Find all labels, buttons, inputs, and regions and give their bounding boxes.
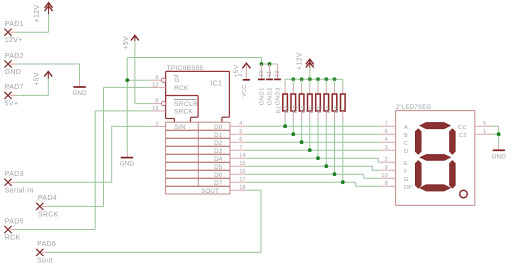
svg-text:Serial In: Serial In bbox=[5, 187, 34, 194]
svg-text:10: 10 bbox=[381, 173, 387, 179]
svg-text:C: C bbox=[404, 141, 408, 147]
svg-text:GND: GND bbox=[5, 69, 22, 76]
svg-text:PAD5: PAD5 bbox=[5, 218, 24, 225]
svg-text:E: E bbox=[404, 161, 408, 167]
svg-text:VCC: VCC bbox=[242, 85, 248, 97]
svg-text:13: 13 bbox=[152, 106, 158, 112]
svg-text:C2: C2 bbox=[459, 133, 467, 139]
svg-text:F: F bbox=[404, 169, 408, 175]
svg-text:DP: DP bbox=[404, 185, 412, 191]
svg-text:CC: CC bbox=[458, 125, 467, 131]
svg-text:12V+: 12V+ bbox=[5, 37, 23, 44]
svg-text:PAD1: PAD1 bbox=[5, 21, 24, 28]
svg-text:D3: D3 bbox=[214, 148, 223, 155]
svg-text:GND: GND bbox=[72, 90, 87, 97]
svg-text:B: B bbox=[404, 133, 408, 139]
svg-text:+5V: +5V bbox=[34, 72, 41, 86]
svg-text:GND: GND bbox=[492, 153, 507, 160]
svg-text:GND3: GND3 bbox=[275, 87, 281, 105]
svg-text:D: D bbox=[404, 149, 408, 155]
svg-text:2"LED7SEG: 2"LED7SEG bbox=[396, 104, 432, 111]
svg-text:D7: D7 bbox=[214, 180, 223, 187]
svg-text:D0: D0 bbox=[214, 124, 223, 131]
svg-text:9: 9 bbox=[385, 165, 388, 171]
svg-text:D6: D6 bbox=[214, 172, 223, 179]
svg-text:R8: R8 bbox=[334, 105, 340, 113]
svg-text:6: 6 bbox=[385, 129, 388, 135]
svg-text:D4: D4 bbox=[214, 156, 223, 163]
svg-text:TPIC6B595: TPIC6B595 bbox=[167, 65, 204, 72]
svg-text:7: 7 bbox=[385, 121, 388, 127]
svg-text:SOUT: SOUT bbox=[201, 188, 219, 195]
svg-text:PAD7: PAD7 bbox=[5, 84, 24, 91]
svg-text:8: 8 bbox=[155, 99, 158, 105]
svg-text:2: 2 bbox=[238, 74, 244, 77]
svg-text:SIN: SIN bbox=[175, 124, 186, 131]
svg-text:7: 7 bbox=[239, 145, 242, 151]
svg-text:A: A bbox=[404, 125, 408, 131]
svg-text:PAD6: PAD6 bbox=[37, 241, 56, 248]
svg-text:SRCLR: SRCLR bbox=[174, 101, 198, 108]
svg-text:PAD2: PAD2 bbox=[5, 53, 24, 60]
svg-text:R5: R5 bbox=[309, 105, 315, 113]
svg-text:GND1: GND1 bbox=[259, 87, 265, 105]
svg-text:Sout: Sout bbox=[37, 257, 53, 264]
svg-text:+12V: +12V bbox=[34, 5, 41, 23]
svg-text:D5: D5 bbox=[214, 164, 223, 171]
svg-text:R2: R2 bbox=[285, 105, 291, 113]
svg-text:5V+: 5V+ bbox=[5, 100, 19, 107]
svg-text:17: 17 bbox=[239, 177, 245, 183]
svg-text:3: 3 bbox=[385, 145, 388, 151]
svg-text:12: 12 bbox=[152, 82, 158, 88]
svg-text:6: 6 bbox=[239, 137, 242, 143]
svg-text:GND: GND bbox=[120, 161, 135, 168]
svg-text:PAD4: PAD4 bbox=[38, 195, 57, 202]
svg-text:G: G bbox=[404, 177, 409, 183]
svg-text:+12V: +12V bbox=[297, 52, 304, 70]
svg-text:1: 1 bbox=[483, 129, 486, 135]
svg-text:10: 10 bbox=[259, 71, 265, 77]
svg-text:4: 4 bbox=[239, 121, 242, 127]
svg-text:R3: R3 bbox=[293, 105, 299, 113]
svg-text:16: 16 bbox=[239, 169, 245, 175]
svg-text:14: 14 bbox=[239, 153, 245, 159]
svg-text:GND2: GND2 bbox=[267, 87, 273, 105]
svg-text:SRCK: SRCK bbox=[174, 109, 193, 116]
svg-text:9: 9 bbox=[155, 75, 158, 81]
svg-text:5: 5 bbox=[483, 121, 486, 127]
svg-text:15: 15 bbox=[239, 161, 245, 167]
svg-text:IC1: IC1 bbox=[211, 79, 223, 87]
svg-text:8: 8 bbox=[385, 181, 388, 187]
svg-text:RCK: RCK bbox=[174, 85, 189, 92]
svg-text:PAD3: PAD3 bbox=[5, 171, 24, 178]
svg-text:R7: R7 bbox=[326, 105, 332, 113]
svg-text:19: 19 bbox=[275, 71, 281, 77]
svg-text:RCK: RCK bbox=[5, 235, 21, 242]
svg-text:D2: D2 bbox=[214, 140, 223, 147]
svg-text:4: 4 bbox=[385, 137, 388, 143]
svg-text:18: 18 bbox=[239, 185, 245, 191]
svg-text:D1: D1 bbox=[214, 132, 223, 139]
svg-text:SRCK: SRCK bbox=[38, 211, 59, 218]
svg-text:R6: R6 bbox=[318, 105, 324, 113]
svg-text:11: 11 bbox=[267, 71, 273, 77]
svg-text:R1: R1 bbox=[277, 105, 283, 113]
svg-text:+5V: +5V bbox=[123, 36, 130, 50]
svg-text:2: 2 bbox=[385, 157, 388, 163]
svg-text:R4: R4 bbox=[301, 105, 307, 113]
svg-text:5: 5 bbox=[239, 129, 242, 135]
svg-text:3: 3 bbox=[155, 121, 158, 127]
svg-text:G: G bbox=[174, 77, 179, 84]
